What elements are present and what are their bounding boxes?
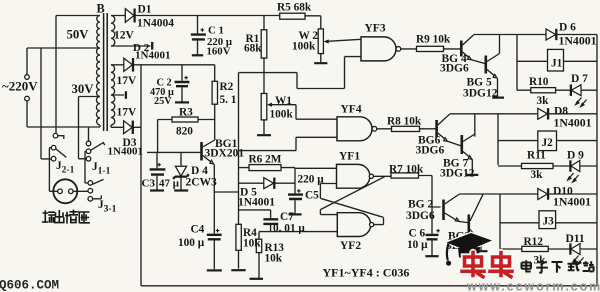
svg-text:3DG12: 3DG12 <box>463 88 498 100</box>
svg-text:D 9: D 9 <box>567 150 584 162</box>
svg-text:R11: R11 <box>527 150 546 162</box>
svg-text:R6 2M: R6 2M <box>249 154 282 166</box>
svg-text:C4: C4 <box>191 224 205 236</box>
svg-text:R9 10k: R9 10k <box>416 34 451 46</box>
svg-text:YF1: YF1 <box>339 151 360 163</box>
svg-text:YF1~YF4 : C036: YF1~YF4 : C036 <box>323 266 410 280</box>
svg-text:J3: J3 <box>543 216 555 228</box>
svg-text:100k: 100k <box>270 109 294 121</box>
svg-text:17V: 17V <box>117 107 138 119</box>
svg-text:10 μ: 10 μ <box>407 239 428 251</box>
svg-text:R5 68k: R5 68k <box>277 2 312 14</box>
svg-text:R12: R12 <box>524 236 544 248</box>
svg-text:5. 1: 5. 1 <box>220 94 237 106</box>
svg-text:~220V: ~220V <box>2 79 38 94</box>
svg-text:Q606.COM: Q606.COM <box>0 279 59 292</box>
svg-text:D11: D11 <box>566 233 585 245</box>
svg-text:YF3: YF3 <box>365 23 386 35</box>
svg-text:YF2: YF2 <box>340 240 361 252</box>
svg-text:BG 2: BG 2 <box>408 198 433 210</box>
svg-text:W1: W1 <box>275 95 292 107</box>
svg-text:3DX201: 3DX201 <box>205 148 245 160</box>
svg-text:1N4001: 1N4001 <box>553 195 591 209</box>
svg-text:3k: 3k <box>537 95 550 107</box>
svg-text:D 4: D 4 <box>191 165 208 177</box>
svg-text:3k: 3k <box>534 255 547 267</box>
svg-text:3DG6: 3DG6 <box>440 63 469 75</box>
svg-text:3k: 3k <box>531 169 544 181</box>
svg-text:C7: C7 <box>280 211 294 223</box>
svg-text:1N4001: 1N4001 <box>238 197 275 209</box>
svg-text:C5: C5 <box>305 190 319 202</box>
svg-text:D 6: D 6 <box>559 22 576 34</box>
svg-text:25V: 25V <box>154 96 172 107</box>
svg-text:D 7: D 7 <box>571 73 588 85</box>
svg-text:R10: R10 <box>529 76 549 88</box>
svg-text:1N4004: 1N4004 <box>137 18 174 30</box>
svg-text:1N4001: 1N4001 <box>135 50 170 62</box>
svg-text:1N4001: 1N4001 <box>554 116 592 130</box>
svg-text:3DG6: 3DG6 <box>416 145 445 157</box>
svg-text:R3: R3 <box>179 107 193 119</box>
svg-text:220 μ: 220 μ <box>298 174 325 186</box>
svg-text:R2: R2 <box>220 81 234 93</box>
svg-text:J1: J1 <box>551 58 563 70</box>
svg-text:50V: 50V <box>67 28 90 42</box>
svg-text:1N4001: 1N4001 <box>559 34 597 48</box>
svg-text:J2: J2 <box>542 137 554 149</box>
svg-text:160V: 160V <box>207 46 231 58</box>
svg-text:820: 820 <box>176 126 193 138</box>
svg-text:C 6: C 6 <box>409 227 426 239</box>
svg-text:100k: 100k <box>292 41 316 53</box>
svg-text:C 1: C 1 <box>208 25 224 37</box>
svg-text:30V: 30V <box>72 82 95 96</box>
svg-text:B: B <box>97 2 105 16</box>
svg-text:100 μ: 100 μ <box>178 237 205 249</box>
svg-text:17V: 17V <box>117 75 138 87</box>
svg-text:3DG12: 3DG12 <box>440 168 475 180</box>
svg-text:10k: 10k <box>265 253 283 265</box>
svg-text:68k: 68k <box>244 43 262 55</box>
svg-text:3DG6: 3DG6 <box>406 210 435 222</box>
svg-text:R8 10k: R8 10k <box>387 116 422 128</box>
svg-text:47 μ: 47 μ <box>159 178 180 190</box>
svg-text:www.eeworm.com: www.eeworm.com <box>466 280 600 292</box>
svg-text:YF4: YF4 <box>341 104 362 116</box>
svg-text:1N4001: 1N4001 <box>108 146 143 158</box>
svg-text:0. 01 μ: 0. 01 μ <box>273 223 305 235</box>
svg-text:12V: 12V <box>114 30 135 42</box>
svg-text:2CW3: 2CW3 <box>186 177 218 189</box>
svg-text:R7 10k: R7 10k <box>389 164 424 176</box>
svg-text:D1: D1 <box>138 4 152 16</box>
svg-text:C3: C3 <box>142 178 156 190</box>
svg-text:10k: 10k <box>243 238 261 250</box>
